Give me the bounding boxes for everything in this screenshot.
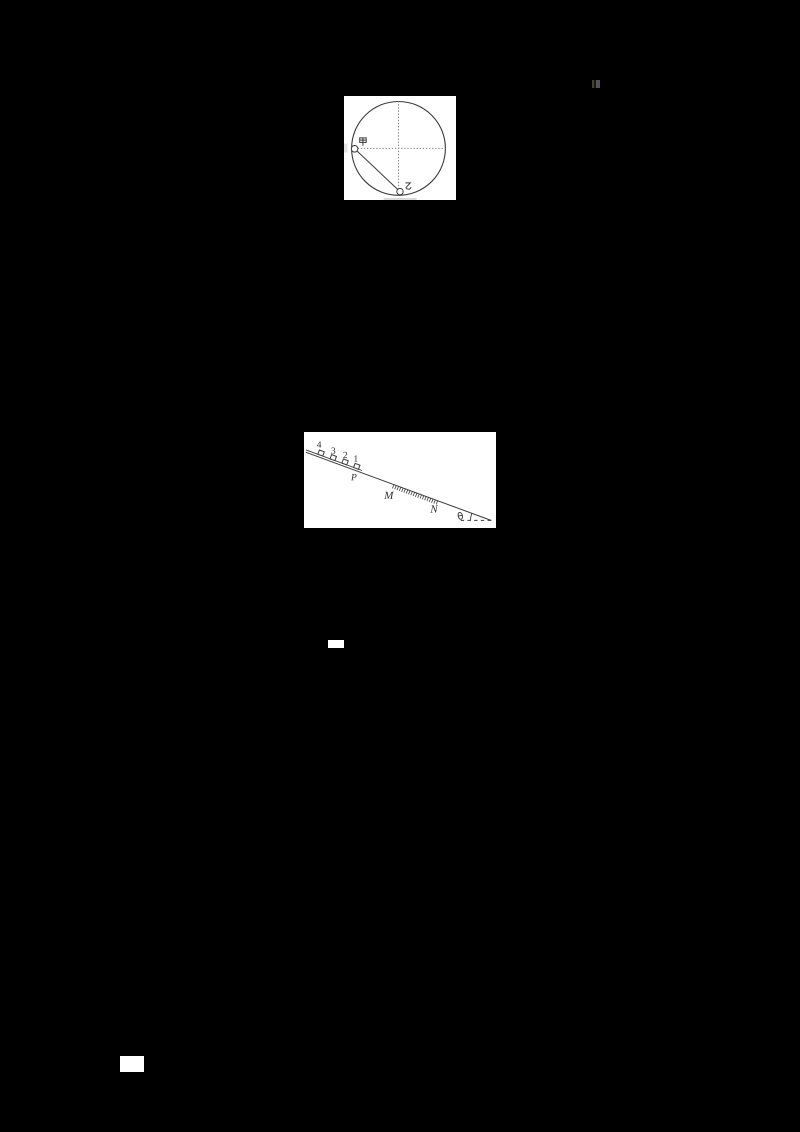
- label P: [351, 474, 357, 480]
- figure 2 white panel (inclined plane): [304, 432, 496, 528]
- circle track: [352, 101, 446, 195]
- gray nub on left edge: [344, 143, 347, 152]
- small white rect bottom left: [120, 1056, 144, 1073]
- dashed horizontal baseline: [461, 520, 492, 522]
- gray band at bottom: [384, 198, 417, 200]
- dotted horizontal diameter: [352, 147, 446, 149]
- figure 1 white panel (circle with balls): [344, 96, 456, 200]
- label 2: [343, 452, 347, 458]
- block 3: [330, 455, 336, 461]
- label N: [430, 506, 438, 513]
- block 4: [318, 450, 324, 456]
- board line above incline: [306, 450, 362, 471]
- ball jia: [351, 145, 358, 152]
- label 3: [331, 448, 335, 454]
- block 1: [354, 464, 360, 470]
- block 2: [342, 459, 348, 465]
- label M: [384, 492, 394, 499]
- incline surface line: [306, 453, 491, 521]
- label jia glyph: [360, 137, 366, 145]
- dotted vertical diameter: [398, 101, 400, 195]
- chord line ball jia to ball yi: [355, 148, 400, 191]
- label theta drawn glyph: [457, 512, 463, 520]
- label 4: [317, 442, 321, 448]
- small white rect middle: [328, 640, 344, 648]
- small gray icon square top right: [592, 80, 600, 88]
- label 1: [354, 456, 357, 462]
- angle arc: [470, 514, 471, 521]
- label yi glyph: [405, 182, 411, 188]
- hatching rough section: [392, 485, 437, 505]
- ball yi: [397, 188, 403, 194]
